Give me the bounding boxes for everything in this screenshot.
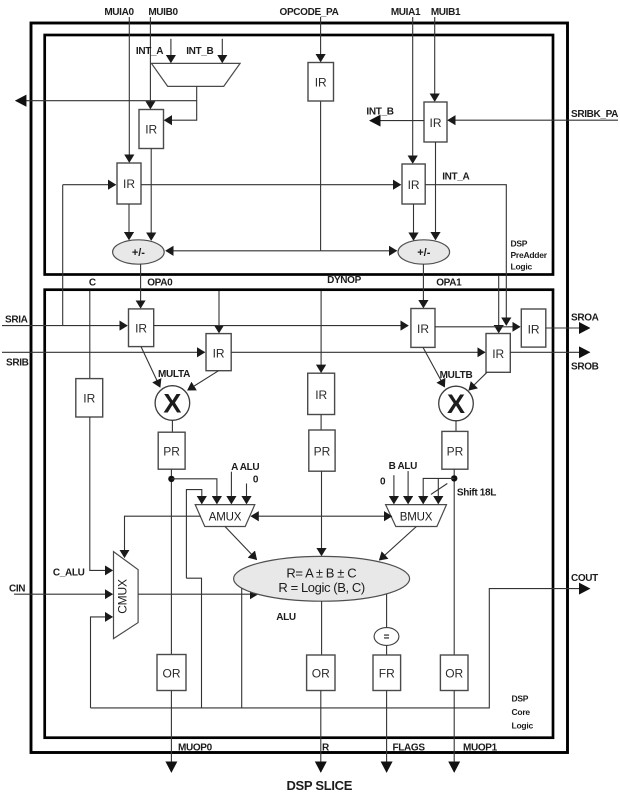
register FR (373, 655, 401, 691)
wire feedback AMUX branch (186, 578, 201, 708)
svg-text:IR: IR (123, 177, 135, 191)
svg-text:Logic: Logic (512, 721, 534, 731)
svg-text:ALU: ALU (276, 612, 296, 623)
svg-text:IR: IR (315, 76, 327, 90)
junction dot B (451, 475, 457, 481)
wire OPA0 preadder to IR5 (140, 264, 142, 308)
register PR_B (442, 431, 468, 469)
wire bus to IR7 (435, 326, 520, 328)
wire mux output down (165, 86, 197, 120)
svg-text:R: R (322, 743, 330, 754)
preadder left +/- (113, 240, 165, 264)
register IR7 sroa (521, 309, 546, 347)
svg-text:BMUX: BMUX (400, 512, 433, 524)
svg-text:INT_B: INT_B (186, 46, 213, 57)
register OR3 (440, 655, 468, 691)
stub B ALU into BMUX pin2 (407, 471, 409, 503)
wire dot B to BMUX pin3 (423, 478, 454, 503)
wire IR4 down to preadder R (413, 204, 415, 240)
wire opcode control to both preadders (166, 250, 321, 252)
svg-text:OR: OR (163, 667, 181, 681)
svg-text:DSP: DSP (512, 694, 529, 704)
wire AMUX pin1 from feedback (186, 490, 201, 579)
svg-text:OR: OR (445, 667, 463, 681)
register IR6 (486, 334, 510, 373)
wire IR_SRIB to multa (188, 371, 219, 390)
register OR2 (307, 655, 335, 691)
register PR_C (309, 430, 335, 471)
svg-text:Core: Core (512, 707, 531, 717)
svg-text:PreAdder: PreAdder (511, 250, 548, 260)
wire left feedback vertical (62, 185, 64, 326)
register IR5 opa0 (129, 309, 154, 347)
wire feedback into CMUX (91, 617, 113, 708)
svg-text:IR: IR (213, 347, 225, 361)
wire BMUX pin4 shift (437, 478, 439, 503)
wire OPA1 preadder to IR8 (422, 264, 424, 307)
mux CMUX (114, 552, 139, 639)
svg-text:SROB: SROB (571, 362, 599, 373)
register IR4 muia1 (402, 164, 425, 204)
svg-text:IR: IR (430, 116, 442, 130)
wire IR8 to multb (423, 347, 445, 386)
register IR opcode (308, 63, 334, 102)
svg-text:MULTB: MULTB (440, 370, 473, 381)
wire IR3 down to preadder R (435, 142, 437, 240)
wire BMUX out to ALU (380, 527, 417, 561)
svg-text:AMUX: AMUX (209, 512, 242, 524)
svg-text:A ALU: A ALU (231, 462, 259, 473)
svg-text:+/-: +/- (417, 247, 430, 259)
stub 0 into AMUX pin4 (246, 484, 248, 504)
shift slash (431, 484, 447, 495)
wire SRIBK_PA into IR3 (448, 119, 618, 121)
wire opcode IR down (320, 101, 322, 251)
wire MUOP1 out (453, 691, 455, 773)
wire MUOP0 out (170, 691, 172, 773)
stub 0 into BMUX pin1 (393, 475, 395, 503)
svg-text:MUOP1: MUOP1 (463, 743, 498, 754)
wire PR_A down to OR1 (170, 469, 172, 654)
svg-text:OPCODE_PA: OPCODE_PA (280, 7, 339, 18)
wire DYNOP from border to IR_D (320, 291, 322, 372)
svg-text:PR: PR (314, 445, 331, 459)
wire R out (320, 691, 322, 773)
register IR3 muib1 (424, 102, 447, 142)
svg-text:SRIBK_PA: SRIBK_PA (571, 109, 618, 120)
svg-text:FLAGS: FLAGS (393, 743, 426, 754)
wire SROA out (546, 327, 590, 329)
svg-text:MUOP0: MUOP0 (178, 743, 213, 754)
wire from border to IR6 (498, 276, 500, 333)
preadder right +/- (398, 240, 450, 264)
multiplier MULTA (155, 386, 190, 421)
wire PR_C down to ALU (321, 471, 323, 555)
register IR_C (76, 379, 103, 417)
wire IR1 down to preadder (150, 149, 152, 241)
svg-text:B ALU: B ALU (389, 461, 418, 472)
wire IR6 to multb (469, 372, 487, 390)
svg-text:C_ALU: C_ALU (53, 568, 85, 579)
svg-text:SROA: SROA (571, 313, 599, 324)
wire C_ALU into CMUX (90, 417, 113, 570)
wire INT_B out of IR3 (370, 120, 424, 122)
wire INT_A from IR4 to section2 (425, 185, 506, 325)
svg-text:CMUX: CMUX (116, 579, 130, 614)
svg-text:OPA1: OPA1 (436, 278, 462, 289)
svg-text:MUIB0: MUIB0 (148, 7, 178, 18)
register IR1 (139, 110, 164, 149)
svg-text:CIN: CIN (9, 584, 25, 595)
wire feedback horizontal (91, 589, 590, 708)
stub arrow into mux A input (170, 39, 172, 63)
wire MUIA0 down to IR2 (128, 17, 130, 162)
mux trapezoid INT_A/INT_B (151, 63, 240, 86)
svg-text:+/-: +/- (132, 247, 145, 259)
wire from border to IR_SRIB (218, 291, 220, 333)
wire SROB out (510, 351, 589, 353)
wire equal to FR (386, 645, 388, 655)
svg-text:MULTA: MULTA (158, 369, 190, 380)
wire IR2 out right to IR4 (141, 184, 401, 186)
wire AMUX out to ALU (225, 527, 257, 560)
svg-text:SRIA: SRIA (5, 315, 28, 326)
wire IR5 to multa (141, 347, 160, 387)
wire long left exit arrow (16, 100, 197, 102)
inner frame DSP Core Logic (45, 290, 553, 738)
svg-text:IR: IR (492, 347, 504, 361)
wire IR2 down to preadder (128, 204, 130, 240)
svg-text:DSP SLICE: DSP SLICE (286, 778, 352, 793)
svg-text:IR: IR (408, 178, 420, 192)
wire interchange left segment to CMUX pin1 (125, 516, 201, 557)
svg-text:COUT: COUT (571, 573, 598, 584)
wire CMUX out to ALU (138, 593, 257, 595)
svg-text:R= A ± B ± C: R= A ± B ± C (286, 565, 356, 580)
wire FLAGS out (386, 691, 388, 773)
wire multb to PR_B (455, 421, 457, 432)
junction dot A (168, 476, 174, 482)
svg-text:MUIA1: MUIA1 (391, 7, 421, 18)
svg-text:INT_A: INT_A (136, 46, 163, 57)
svg-text:SRIB: SRIB (6, 358, 29, 369)
svg-text:IR: IR (315, 388, 327, 402)
svg-text:INT_B: INT_B (366, 107, 393, 118)
svg-text:IR: IR (528, 323, 540, 337)
svg-text:IR: IR (417, 322, 429, 336)
svg-text:Shift 18L: Shift 18L (457, 488, 496, 499)
svg-text:INT_A: INT_A (442, 172, 469, 183)
wire C from border to IR_C (89, 291, 91, 379)
register OR1 (157, 655, 186, 691)
wire PR_B down to OR3 (453, 469, 455, 655)
wire IR_SRIB right to IR6 (231, 351, 485, 353)
wire OPCODE_PA down to IR_op (320, 17, 322, 62)
stub arrow into mux B input (221, 39, 223, 63)
register IR8 opa1 (411, 309, 435, 348)
svg-text:PR: PR (447, 445, 464, 459)
svg-text:OPA0: OPA0 (147, 278, 173, 289)
svg-text:R = Logic (B, C): R = Logic (B, C) (278, 580, 365, 595)
svg-text:IR: IR (145, 123, 157, 137)
svg-text:IR: IR (83, 392, 95, 406)
register IR2 (117, 163, 141, 204)
wire MUIB1 down to IR3 (434, 17, 436, 101)
svg-text:Logic: Logic (511, 262, 533, 272)
wire ALU down to OR2 / R out (321, 601, 323, 655)
wire SRIA input (2, 325, 127, 327)
svg-text:FR: FR (379, 667, 395, 681)
svg-text:PR: PR (163, 445, 180, 459)
svg-text:MUIB1: MUIB1 (431, 7, 461, 18)
wire SRIB input (2, 351, 205, 353)
ALU ellipse (234, 556, 410, 601)
wire multa to PR_A (171, 420, 173, 432)
outer frame DSP SLICE (31, 23, 568, 753)
stub A ALU into AMUX pin3 (230, 472, 232, 504)
svg-text:X: X (163, 388, 181, 418)
wire ALU to equal (386, 594, 388, 628)
wire into IR2 left (63, 184, 116, 186)
svg-text:0: 0 (380, 477, 386, 488)
multiplier MULTB (439, 386, 474, 421)
register IR_D dynop (308, 373, 335, 414)
svg-text:=: = (384, 632, 390, 643)
wire dot A to AMUX pin2 (171, 479, 217, 504)
mux BMUX (386, 505, 447, 527)
svg-text:0: 0 (253, 475, 259, 486)
mux AMUX (195, 505, 255, 527)
wire ALU branch to feedback (241, 588, 243, 708)
svg-text:OR: OR (312, 667, 330, 681)
svg-text:DYNOP: DYNOP (327, 275, 361, 286)
wire IR_D to PR_C (320, 415, 322, 431)
wire CIN into CMUX (14, 593, 112, 595)
wire IR5 right to IR8 (154, 325, 408, 327)
svg-text:MUIA0: MUIA0 (104, 7, 134, 18)
svg-text:X: X (447, 389, 465, 419)
wire MUIA1 down to IR4 (412, 17, 414, 163)
wire interchange AMUX-BMUX double arrow (251, 515, 391, 517)
svg-text:IR: IR (135, 322, 147, 336)
register IR_SRIB (206, 334, 231, 371)
comparator = (374, 628, 399, 646)
register PR_A (158, 432, 185, 469)
svg-text:C: C (89, 278, 96, 289)
svg-text:DSP: DSP (511, 239, 528, 249)
inner frame DSP PreAdder Logic (45, 35, 553, 275)
wire MUIB0 down to IR1 (149, 17, 151, 109)
